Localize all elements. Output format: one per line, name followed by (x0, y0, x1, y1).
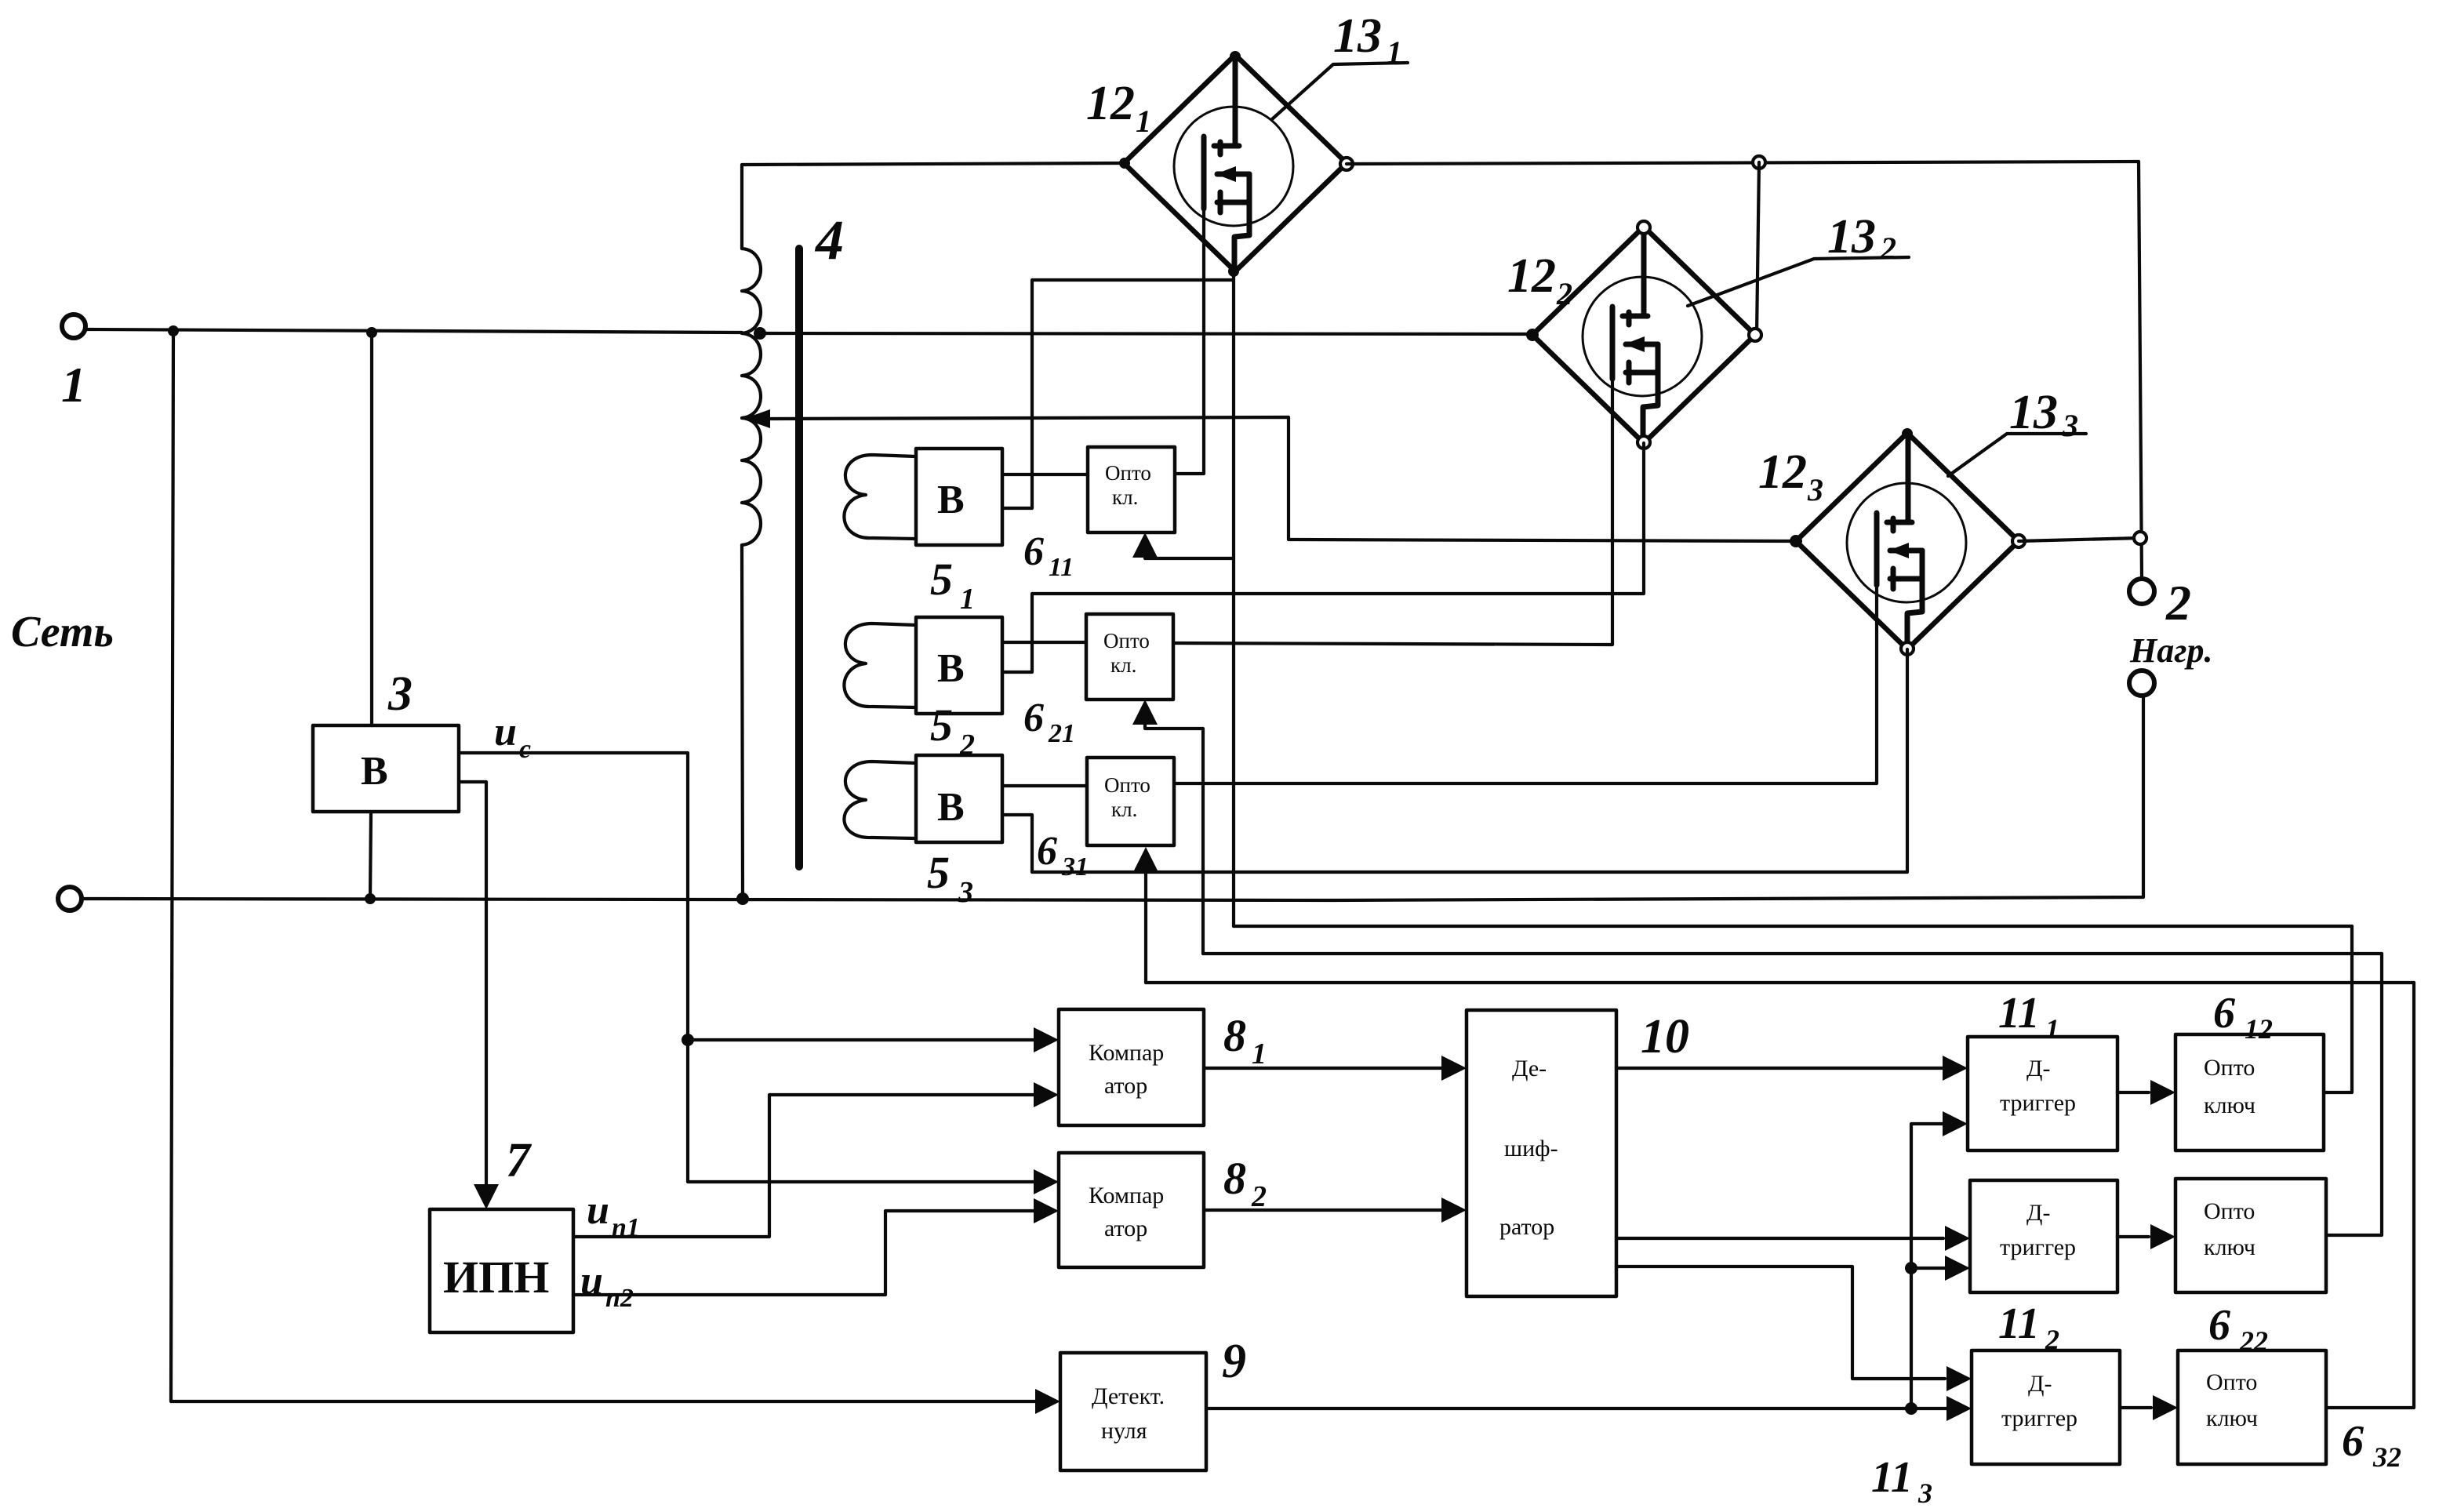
winding for rectifier 5-2 (844, 623, 915, 707)
svg-text:с: с (519, 735, 531, 764)
svg-text:триггер: триггер (2000, 1090, 2076, 1116)
rectifier B 5-2 (916, 617, 1002, 714)
svg-text:4: 4 (814, 209, 844, 271)
label 13-3 with leader (2009, 386, 2078, 443)
wire: 12-3 right vertex to output bus (2019, 538, 2140, 541)
leader line 13-1 (1272, 63, 1408, 119)
arrow into 11-3 input 2 (1946, 1396, 1972, 1421)
transformer tap arrow (743, 409, 770, 428)
wire: 12-1 source lead down (1232, 271, 1235, 926)
svg-text:3: 3 (958, 876, 973, 909)
label 13-1 with leader (1333, 9, 1402, 70)
svg-text:13: 13 (1827, 210, 1876, 264)
wire: decoder output 3 to trigger 11-3 (1616, 1267, 1945, 1379)
label 13-2 with leader (1827, 210, 1896, 266)
svg-text:5: 5 (930, 554, 953, 605)
svg-text:шиф-: шиф- (1504, 1136, 1558, 1161)
svg-text:Опто: Опто (2204, 1198, 2255, 1224)
svg-text:В: В (937, 646, 965, 691)
node: junction top bus to 12-2 (1753, 156, 1765, 169)
node: 12-2 left vertex (1526, 329, 1539, 341)
svg-text:Детект.: Детект. (1092, 1383, 1165, 1409)
svg-text:5: 5 (927, 847, 950, 898)
svg-text:u: u (587, 1188, 609, 1233)
svg-text:10: 10 (1641, 1010, 1689, 1063)
svg-text:6: 6 (2213, 989, 2235, 1038)
wire: drop from top bus to 12-2 right vertex (1757, 162, 1759, 335)
wire: 5-1 lower output (1002, 280, 1234, 508)
svg-text:1: 1 (1252, 1038, 1267, 1070)
svg-text:11: 11 (1998, 1299, 2040, 1348)
rectifier B 5-3 (916, 755, 1002, 842)
wire: optokey 6-21 output to gate of 12-2 (1173, 379, 1612, 645)
node: junction at x218 on top mains (168, 325, 179, 336)
node: junction u_c split (682, 1034, 694, 1046)
svg-text:ключ: ключ (2204, 1234, 2255, 1260)
svg-text:9: 9 (1222, 1335, 1246, 1388)
wire: 5-1 upper output to optokey 6-11 (1002, 473, 1088, 476)
wire: optokey 6-11 output up to gate of 12-1 (1175, 209, 1204, 474)
comparator 8-1 (1059, 1009, 1204, 1125)
svg-text:1: 1 (1136, 104, 1151, 139)
optokey 6-21 (1086, 614, 1173, 700)
label 11-3 (1871, 1453, 1932, 1509)
node: junction at x474 on top mains (366, 327, 377, 338)
label u_p1 (587, 1188, 640, 1242)
leader line 13-3 (1948, 434, 2086, 476)
wire: 5-2 upper output to optokey 6-21 (1002, 641, 1086, 644)
winding for rectifier 5-1 (844, 455, 915, 539)
arrow into 11-3 input 1 (1946, 1366, 1972, 1391)
wire: riser from optokey 6-22 output (2326, 954, 2382, 1235)
wire: 5-3 upper output to optokey 6-31 (1002, 784, 1087, 787)
wire: 11-3 to optokey 6-32 (2120, 1406, 2151, 1409)
svg-text:12: 12 (1507, 249, 1556, 303)
label 5-2 (930, 700, 975, 761)
wire: comparator 8-2 output to decoder (1204, 1209, 1443, 1212)
svg-text:1: 1 (2045, 1013, 2059, 1045)
terminal 2 (top output) (2129, 579, 2154, 604)
svg-text:6: 6 (2208, 1301, 2230, 1350)
label 12-2 (1507, 249, 1572, 311)
node: 12-3 top vertex (1902, 428, 1913, 439)
leader line 13-2 (1688, 257, 1909, 306)
svg-text:13: 13 (1333, 9, 1382, 63)
MOSFET block 12-1 circle (1174, 107, 1293, 226)
svg-text:Д-: Д- (2026, 1056, 2050, 1081)
arrow into 6-32 (2153, 1395, 2178, 1420)
wire: block 9 output clock line (1206, 1407, 1946, 1410)
svg-text:нуля: нуля (1101, 1418, 1147, 1444)
node: 12-1 left vertex (1119, 158, 1130, 169)
block 9 zero detector (1060, 1353, 1206, 1470)
svg-text:Нагр.: Нагр. (2129, 631, 2212, 670)
svg-text:2: 2 (2165, 575, 2191, 631)
node: 12-1 bottom vertex (1228, 266, 1239, 277)
wire: transformer bottom lead to rail (742, 545, 743, 899)
svg-text:Опто: Опто (2204, 1055, 2255, 1081)
wire: u_c output of block 3 (459, 753, 1054, 1182)
wire: clock branch to 11-2 (1911, 1267, 1946, 1270)
wire: block 3 lower output down to IPN 7 (459, 782, 486, 1200)
wire: 11-2 to optokey 6-22 (2117, 1235, 2149, 1238)
arrow into 6-11 (1132, 532, 1158, 558)
svg-text:Де-: Де- (1512, 1056, 1547, 1081)
arrow into 8-1 input 2 (1034, 1082, 1059, 1107)
label 11-2 (1998, 1299, 2059, 1355)
arrow into 8-1 input 1 (1034, 1027, 1059, 1052)
D-trigger 11-3 (1972, 1350, 2120, 1464)
svg-text:21: 21 (1048, 719, 1075, 748)
svg-text:кл.: кл. (1111, 798, 1137, 821)
label 6-21 (1023, 696, 1075, 748)
label 8-1 (1223, 1010, 1267, 1070)
wire: bottom neutral rail to load bottom (82, 696, 2143, 900)
svg-text:ИПН: ИПН (443, 1252, 549, 1303)
arrow into decoder input 2 (1441, 1198, 1467, 1223)
wire: control branch into 6-21 (1145, 707, 1203, 954)
arrow into 11-2 input 1 (1945, 1226, 1970, 1251)
optokey 6-31 (1087, 758, 1174, 845)
rectifier B 3 (313, 725, 459, 812)
svg-text:Компар: Компар (1089, 1183, 1164, 1209)
terminal 2 (bottom output) (2129, 671, 2154, 696)
svg-text:12: 12 (2245, 1013, 2273, 1045)
svg-text:триггер: триггер (2001, 1405, 2077, 1431)
svg-text:8: 8 (1223, 1010, 1246, 1061)
svg-text:u: u (494, 710, 517, 754)
svg-text:6: 6 (1023, 529, 1044, 574)
label 11-1 (1998, 989, 2059, 1045)
label 6-32 (2342, 1417, 2401, 1473)
node: 12-2 right vertex (1749, 329, 1761, 341)
svg-text:Опто: Опто (1103, 629, 1150, 652)
transistor 13-2 symbol (1612, 228, 1658, 442)
winding for rectifier 5-3 (844, 761, 915, 838)
wire: u_c branch to comparator 8-1 (688, 1038, 1054, 1041)
wire: clock riser to triggers (1911, 1124, 1946, 1408)
svg-text:11: 11 (1871, 1453, 1913, 1502)
wire: control line into 6-31 (1144, 856, 1147, 983)
svg-text:Компар: Компар (1089, 1040, 1164, 1066)
wire: tap line to 12-3 left vertex (767, 417, 1796, 541)
arrow into 11-2 input 2 (1945, 1256, 1970, 1281)
svg-text:Опто: Опто (2206, 1369, 2257, 1395)
node: 12-3 left vertex (1790, 535, 1802, 547)
node: 12-3 right vertex (2012, 535, 2025, 547)
svg-text:п2: п2 (605, 1284, 634, 1313)
arrow into 11-1 input 2 (1943, 1111, 1968, 1136)
transistor 13-1 symbol (1204, 56, 1249, 270)
svg-text:2: 2 (1251, 1180, 1267, 1213)
wire: control branch into 6-11 (1145, 541, 1234, 558)
wire: control line channel 1 to riser (1234, 925, 2352, 928)
svg-text:В: В (937, 785, 965, 830)
svg-text:атор: атор (1104, 1073, 1147, 1099)
arrow into 6-31 (1133, 847, 1158, 872)
svg-text:кл.: кл. (1112, 485, 1138, 509)
arrow into 6-12 (2150, 1080, 2175, 1105)
wire: output bus right side down (2139, 162, 2142, 580)
MOSFET block 12-1 diamond (1124, 55, 1347, 271)
optokey 6-11 (1088, 447, 1175, 532)
label 12-1 (1086, 77, 1151, 139)
label 5-3 (927, 847, 973, 909)
optokey 6-32 (2178, 1350, 2326, 1464)
label 6-22 (2208, 1301, 2268, 1357)
comparator 8-2 (1059, 1153, 1204, 1267)
svg-text:31: 31 (1061, 852, 1089, 881)
node: junction mains at transformer coil (754, 327, 766, 340)
arrow into 11-1 input 1 (1943, 1056, 1968, 1081)
optokey 6-22 (2175, 1179, 2326, 1292)
svg-text:В: В (361, 749, 388, 794)
terminal 1 (top input) (62, 314, 85, 338)
arrow into 6-22 (2150, 1224, 2175, 1249)
wire: top bus from 12-1 right vertex to right side (1347, 162, 2139, 164)
svg-text:5: 5 (930, 700, 953, 751)
node: 12-2 top vertex (1638, 221, 1650, 234)
wire: u_p2 to comparator 8-2 (573, 1211, 1054, 1295)
label 6-31 (1037, 829, 1089, 881)
wire: optokey 6-31 output to gate of 12-3 (1174, 585, 1877, 783)
svg-text:11: 11 (1049, 553, 1074, 582)
label 6-12 (2213, 989, 2273, 1045)
svg-text:12: 12 (1086, 77, 1135, 130)
svg-text:2: 2 (1880, 231, 1896, 266)
transformer 4 primary winding (742, 249, 761, 545)
node: junction output bus (2134, 532, 2146, 544)
D-trigger 11-2 (1970, 1180, 2117, 1292)
label u_p2 (580, 1259, 634, 1313)
wire: left feed down to zero detector (171, 331, 1054, 1401)
wire: riser from optokey 6-32 output (2326, 983, 2414, 1408)
svg-text:кл.: кл. (1110, 653, 1136, 677)
svg-text:12: 12 (1758, 445, 1807, 499)
block IPN 7 (430, 1209, 573, 1332)
svg-text:1: 1 (61, 357, 86, 413)
node: junction clock at 11-2 (1905, 1262, 1917, 1274)
node: 12-1 right vertex (1340, 158, 1353, 170)
svg-text:13: 13 (2009, 386, 2058, 439)
wire: mains continues from transformer tap to 12-2 left vertex (760, 333, 1532, 334)
optokey 6-12 (2175, 1034, 2324, 1150)
arrow into IPN 7 (474, 1184, 499, 1209)
wire: block 3 to rail (370, 812, 371, 899)
node: 12-1 top vertex (1230, 51, 1241, 62)
svg-text:u: u (580, 1259, 603, 1303)
MOSFET block 12-3 diamond (1796, 433, 2019, 649)
transformer 4 core (795, 249, 803, 867)
svg-text:8: 8 (1223, 1153, 1246, 1204)
svg-text:3: 3 (1807, 472, 1823, 507)
label 8-2 (1223, 1153, 1267, 1213)
wire: control line channel 3 to riser (1146, 981, 2414, 984)
svg-text:В: В (937, 478, 965, 522)
node: junction rail at transformer bottom (736, 892, 749, 905)
rectifier B 5-1 (916, 449, 1002, 545)
svg-text:триггер: триггер (2000, 1234, 2076, 1260)
svg-text:ратор: ратор (1499, 1214, 1554, 1240)
node: 12-3 bottom vertex (1901, 642, 1914, 655)
wire: riser from optokey 6-12 output (2324, 926, 2352, 1092)
terminal 1 (bottom input) (58, 887, 82, 910)
svg-text:атор: атор (1104, 1216, 1147, 1241)
svg-text:Опто: Опто (1104, 773, 1150, 797)
wire: top mains from terminal 1 to transformer (86, 329, 742, 333)
wire: 11-1 to optokey 6-12 (2117, 1091, 2149, 1094)
svg-text:2: 2 (1556, 276, 1572, 311)
D-trigger 11-1 (1968, 1037, 2117, 1150)
label u_c (494, 710, 531, 764)
svg-text:6: 6 (1037, 829, 1057, 874)
decoder 10 (1467, 1010, 1616, 1296)
wire: 5-2 lower output (1002, 443, 1644, 672)
svg-text:32: 32 (2372, 1441, 2401, 1473)
svg-text:3: 3 (1917, 1477, 1932, 1509)
wire: control line channel 2 to riser (1203, 952, 2382, 955)
MOSFET block 12-3 circle (1847, 483, 1966, 602)
svg-text:ключ: ключ (2206, 1405, 2258, 1431)
wire: u_p1 to comparator 8-1 (573, 1095, 1054, 1237)
svg-text:ключ: ключ (2204, 1092, 2255, 1118)
svg-text:3: 3 (2062, 408, 2078, 443)
svg-text:Д-: Д- (2026, 1200, 2050, 1226)
node: junction rail below block 3 (365, 893, 376, 904)
transistor 13-3 symbol (1877, 434, 1922, 648)
node: 12-2 bottom vertex (1638, 436, 1650, 449)
MOSFET block 12-2 circle (1583, 277, 1702, 396)
arrow into decoder input 1 (1441, 1056, 1467, 1081)
svg-text:Д-: Д- (2028, 1371, 2052, 1397)
wire: transformer top lead (742, 163, 1125, 249)
wire: comparator 8-1 output to decoder (1204, 1067, 1443, 1070)
wire: 5-3 lower output to 12-3 source line (1002, 649, 1907, 872)
svg-text:6: 6 (2342, 1417, 2364, 1466)
arrow into 6-21 (1132, 700, 1158, 725)
svg-text:7: 7 (506, 1134, 533, 1187)
arrow into 8-2 input 1 (1034, 1169, 1059, 1194)
svg-text:Сеть: Сеть (11, 608, 114, 656)
wire: drop to block 3 (370, 333, 373, 725)
svg-text:1: 1 (960, 583, 975, 616)
label 6-11 (1023, 529, 1074, 582)
MOSFET block 12-2 diamond (1532, 227, 1755, 443)
arrow into 8-2 input 2 (1034, 1198, 1059, 1223)
node: junction clock at 11-3 (1905, 1402, 1917, 1415)
svg-text:Опто: Опто (1105, 461, 1151, 485)
svg-text:6: 6 (1023, 696, 1044, 740)
wire: decoder output 1 to trigger 11-1 (1616, 1067, 1943, 1070)
svg-text:3: 3 (387, 667, 413, 721)
svg-text:11: 11 (1998, 989, 2040, 1038)
arrow into block 9 (1035, 1389, 1060, 1414)
label 12-3 (1758, 445, 1823, 507)
wire: decoder output 2 to trigger 11-2 (1616, 1237, 1943, 1240)
label 5-1 (930, 554, 975, 616)
